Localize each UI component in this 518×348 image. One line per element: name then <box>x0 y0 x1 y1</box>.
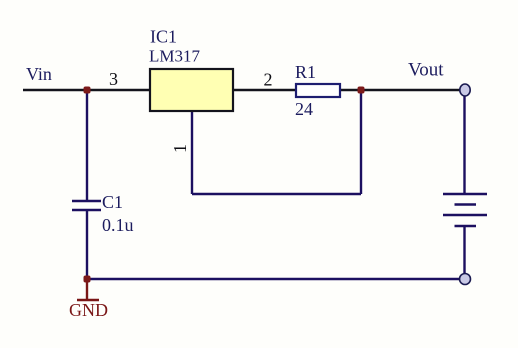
op-amp IC1 LM317 regulator body <box>150 69 233 111</box>
resistor R1 body <box>296 84 340 97</box>
svg-text:24: 24 <box>295 99 313 119</box>
wire: node OUT to Vout terminal <box>361 89 460 91</box>
wire: battery bottom to lower terminal <box>463 226 465 275</box>
battery BT1 plate long lower <box>443 214 487 216</box>
node: junction OUT / R1 / feedback <box>358 87 365 94</box>
svg-text:LM317: LM317 <box>149 47 201 66</box>
svg-text:1: 1 <box>170 144 190 153</box>
svg-text:0.1u: 0.1u <box>102 215 134 235</box>
wire: Vout terminal down to battery top <box>463 94 465 194</box>
svg-text:3: 3 <box>109 69 118 89</box>
svg-text:IC1: IC1 <box>150 27 177 47</box>
svg-text:R1: R1 <box>295 62 316 82</box>
terminal: bottom open circle <box>460 274 471 285</box>
wire: Vin node down to C1 top plate <box>86 90 88 201</box>
svg-text:Vin: Vin <box>26 64 52 84</box>
wire: R1 to node OUT <box>340 89 361 91</box>
terminal: Vout open circle <box>460 84 470 96</box>
battery BT1 plate short bottom <box>455 225 477 227</box>
svg-text:Vout: Vout <box>408 60 444 81</box>
capacitor C1 bottom plate <box>72 209 101 211</box>
wire: IC1 pin 2 to R1 <box>233 89 296 91</box>
wire: pin 1 feedback run across <box>192 193 361 195</box>
ground GND stub <box>86 281 88 300</box>
svg-text:2: 2 <box>264 70 273 90</box>
wire: Vin input rail to IC1 pin 3 <box>23 89 150 91</box>
svg-text:GND: GND <box>69 300 108 320</box>
svg-text:C1: C1 <box>102 192 123 212</box>
ground GND bar <box>77 299 99 302</box>
node: junction Vin / C1 <box>84 87 91 94</box>
wire: bottom rail ground node to battery negative terminal <box>87 278 460 280</box>
battery BT1 plate long top <box>443 193 487 195</box>
battery BT1 plate short <box>455 203 477 205</box>
node: junction ground rail / C1 / GND <box>84 276 91 283</box>
wire: IC1 pin 1 down <box>191 111 193 194</box>
wire: C1 bottom plate down to ground node <box>86 210 88 279</box>
wire: feedback up to node OUT <box>360 90 362 194</box>
capacitor C1 top plate <box>72 200 101 202</box>
